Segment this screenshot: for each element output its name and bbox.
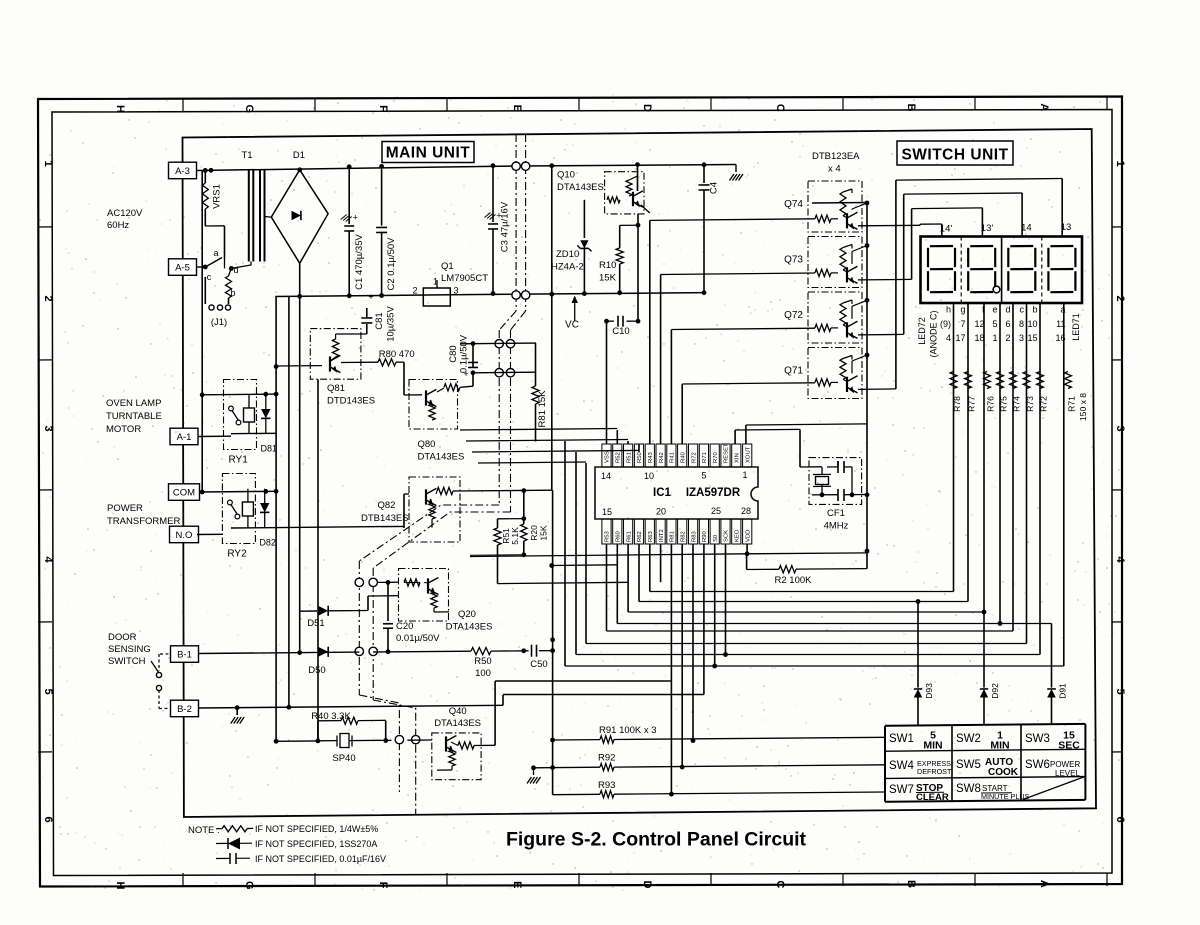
svg-text:SW7: SW7 (889, 784, 914, 796)
svg-text:NOTE :: NOTE : (188, 825, 220, 836)
svg-text:3: 3 (1114, 425, 1126, 431)
svg-text:R90: R90 (702, 530, 708, 542)
svg-text:H: H (114, 882, 126, 890)
svg-text:SW2: SW2 (956, 733, 981, 745)
svg-text:R52: R52 (616, 452, 622, 463)
svg-text:AC120V: AC120V (107, 208, 143, 219)
svg-text:SCK: SCK (724, 530, 730, 542)
svg-text:7: 7 (960, 319, 965, 329)
svg-text:R92: R92 (598, 753, 615, 764)
svg-text:Q73: Q73 (784, 255, 803, 266)
svg-text:17: 17 (955, 333, 965, 343)
svg-text:R71: R71 (702, 452, 708, 463)
svg-text:C81: C81 (374, 312, 385, 329)
svg-text:1: 1 (992, 333, 997, 343)
svg-text:INT2: INT2 (659, 529, 665, 542)
svg-text:R91 100K x 3: R91 100K x 3 (599, 725, 657, 736)
svg-text:MOTOR: MOTOR (106, 424, 141, 435)
svg-text:Q74: Q74 (784, 199, 803, 210)
svg-text:F: F (377, 105, 389, 112)
svg-text:Figure S-2. Control Panel Circ: Figure S-2. Control Panel Circuit (506, 829, 807, 851)
svg-text:IC1: IC1 (653, 487, 672, 499)
svg-text:SW3: SW3 (1025, 733, 1050, 745)
svg-text:5: 5 (1114, 688, 1126, 694)
svg-text:R40: R40 (680, 451, 686, 463)
svg-text:C10: C10 (612, 326, 629, 337)
svg-text:IF NOT SPECIFIED, 1SS270A: IF NOT SPECIFIED, 1SS270A (255, 839, 377, 849)
svg-text:LED71: LED71 (1071, 313, 1081, 341)
svg-text:B: B (905, 104, 917, 112)
svg-text:B-1: B-1 (177, 650, 192, 661)
svg-text:VC: VC (565, 320, 579, 331)
svg-text:100: 100 (475, 668, 491, 679)
svg-text:ZD10: ZD10 (556, 249, 579, 260)
svg-text:6: 6 (1114, 816, 1126, 822)
svg-text:14: 14 (601, 471, 611, 481)
svg-text:R50: R50 (474, 656, 491, 667)
svg-text:13: 13 (1061, 222, 1072, 233)
svg-text:2: 2 (412, 286, 417, 296)
svg-text:R81 15K: R81 15K (537, 390, 548, 428)
svg-text:4MHz: 4MHz (824, 521, 849, 532)
svg-text:14: 14 (1021, 223, 1032, 234)
svg-text:R60: R60 (616, 530, 622, 542)
svg-text:Q82: Q82 (378, 500, 396, 511)
svg-text:C4: C4 (709, 182, 720, 194)
svg-text:0.1µ/50V: 0.1µ/50V (459, 334, 470, 373)
svg-text:R77: R77 (967, 396, 977, 412)
svg-text:Q72: Q72 (784, 310, 803, 321)
svg-text:IF NOT SPECIFIED, 0.01µF/16V: IF NOT SPECIFIED, 0.01µF/16V (255, 854, 386, 864)
svg-text:Q40: Q40 (449, 706, 467, 717)
svg-text:20: 20 (656, 507, 666, 517)
svg-text:XIN: XIN (735, 453, 741, 463)
svg-text:LM7905CT: LM7905CT (441, 273, 488, 284)
svg-text:LED72: LED72 (917, 317, 927, 345)
svg-text:TURNTABLE: TURNTABLE (106, 411, 162, 422)
svg-text:B-2: B-2 (177, 704, 192, 715)
svg-text:b: b (1032, 305, 1037, 315)
svg-text:D92: D92 (990, 683, 1000, 699)
svg-text:CF1: CF1 (827, 508, 845, 519)
svg-text:5: 5 (42, 688, 54, 694)
svg-text:4: 4 (42, 556, 54, 563)
svg-text:4: 4 (946, 333, 951, 343)
svg-text:POWER: POWER (1050, 760, 1080, 769)
svg-text:VRS1: VRS1 (212, 184, 223, 209)
svg-text:Q20: Q20 (458, 609, 476, 620)
svg-text:DTA143ES: DTA143ES (418, 452, 465, 463)
svg-text:T1: T1 (241, 150, 252, 161)
svg-text:R83: R83 (691, 530, 697, 542)
svg-text:R51: R51 (626, 452, 632, 463)
svg-text:R63: R63 (648, 530, 654, 542)
svg-text:8: 8 (1019, 319, 1024, 329)
svg-text:DTA143ES: DTA143ES (446, 622, 493, 633)
svg-text:a: a (1060, 305, 1065, 315)
svg-text:DEFROST: DEFROST (917, 767, 952, 776)
svg-text:2: 2 (42, 295, 54, 301)
svg-text:Q81: Q81 (327, 383, 345, 394)
svg-text:Q1: Q1 (441, 261, 454, 272)
svg-text:IF NOT SPECIFIED, 1/4W±5%: IF NOT SPECIFIED, 1/4W±5% (255, 824, 378, 834)
svg-text:R93: R93 (598, 780, 615, 791)
svg-text:Q71: Q71 (784, 366, 803, 377)
svg-text:16: 16 (1055, 333, 1065, 343)
svg-text:RESET: RESET (724, 443, 730, 463)
svg-text:2: 2 (1114, 295, 1126, 301)
svg-text:POWER: POWER (107, 503, 143, 514)
svg-text:N.O: N.O (176, 530, 193, 541)
svg-text:R41: R41 (670, 452, 676, 463)
svg-text:D50: D50 (308, 665, 325, 676)
svg-text:R2 100K: R2 100K (775, 575, 813, 586)
svg-text:150 x 8: 150 x 8 (1078, 393, 1088, 421)
svg-text:3: 3 (454, 286, 459, 296)
svg-text:C3 47µ/16V: C3 47µ/16V (500, 201, 511, 252)
svg-text:A-1: A-1 (177, 432, 192, 443)
svg-text:C: C (774, 104, 786, 112)
svg-text:g: g (960, 305, 965, 315)
svg-text:c: c (207, 272, 212, 282)
svg-text:R73: R73 (1025, 396, 1035, 412)
svg-text:15K: 15K (599, 273, 617, 284)
svg-text:Q80: Q80 (418, 439, 436, 450)
svg-text:R43: R43 (648, 451, 654, 463)
svg-text:D81: D81 (261, 444, 278, 454)
svg-text:R81: R81 (670, 531, 676, 542)
svg-text:R50: R50 (637, 451, 643, 463)
svg-text:5: 5 (992, 319, 997, 329)
svg-text:D51: D51 (307, 618, 324, 629)
svg-text:D82: D82 (259, 538, 276, 548)
svg-text:12: 12 (974, 319, 984, 329)
svg-text:VDD: VDD (745, 530, 751, 542)
svg-text:25: 25 (711, 506, 721, 516)
svg-text:18: 18 (974, 333, 984, 343)
svg-text:MAIN UNIT: MAIN UNIT (386, 145, 471, 162)
svg-text:60Hz: 60Hz (107, 220, 129, 231)
svg-text:HZ4A-2: HZ4A-2 (551, 262, 584, 273)
svg-text:G: G (243, 881, 255, 890)
svg-text:E: E (511, 105, 523, 112)
svg-text:DOOR: DOOR (108, 632, 137, 643)
svg-text:R75: R75 (999, 396, 1009, 412)
svg-text:C2 0.1µ/50V: C2 0.1µ/50V (386, 237, 397, 291)
svg-text:F: F (377, 882, 389, 889)
svg-text:R82: R82 (680, 531, 686, 542)
svg-text:SEC: SEC (1058, 740, 1080, 752)
svg-text:SENSING: SENSING (108, 644, 151, 655)
svg-text:1: 1 (1114, 160, 1126, 166)
svg-text:H: H (114, 105, 126, 113)
svg-text:SW5: SW5 (956, 759, 981, 771)
svg-text:R53: R53 (605, 530, 611, 542)
svg-text:CLEAR: CLEAR (916, 792, 949, 803)
svg-text:MIN: MIN (990, 740, 1009, 752)
svg-text:G: G (243, 105, 255, 114)
svg-text:d: d (1005, 305, 1010, 315)
svg-text:a: a (213, 248, 218, 258)
svg-text:R61: R61 (626, 531, 632, 542)
svg-text:0.01µ/50V: 0.01µ/50V (396, 633, 440, 644)
svg-text:3: 3 (42, 425, 54, 431)
svg-text:KEO: KEO (735, 529, 741, 542)
svg-text:COOK: COOK (988, 767, 1019, 778)
svg-text:D: D (641, 104, 653, 112)
svg-text:C: C (774, 880, 786, 888)
svg-text:3: 3 (1019, 333, 1024, 343)
svg-text:E: E (511, 881, 523, 888)
svg-text:MIN: MIN (923, 740, 942, 752)
svg-text:13': 13' (981, 223, 994, 234)
svg-text:R72: R72 (1039, 396, 1049, 412)
svg-text:5.1K: 5.1K (510, 527, 520, 545)
svg-text:SWITCH: SWITCH (108, 656, 146, 667)
svg-text:14': 14' (940, 224, 953, 235)
svg-text:SW4: SW4 (889, 760, 915, 772)
svg-text:R10: R10 (599, 260, 616, 271)
svg-text:+: + (368, 292, 373, 302)
svg-text:x 4: x 4 (828, 164, 841, 175)
svg-text:C20: C20 (396, 621, 413, 632)
svg-text:SW8: SW8 (956, 783, 981, 795)
svg-text:2: 2 (1005, 333, 1010, 343)
svg-text:R42: R42 (659, 452, 665, 463)
svg-text:R72: R72 (691, 452, 697, 463)
svg-text:15: 15 (1027, 333, 1037, 343)
svg-text:VSS: VSS (605, 451, 611, 463)
svg-text:28: 28 (741, 506, 751, 516)
svg-text:RY2: RY2 (227, 549, 247, 560)
svg-text:DTD143ES: DTD143ES (327, 396, 375, 407)
svg-text:A-5: A-5 (175, 263, 190, 274)
svg-text:d: d (233, 265, 238, 275)
svg-text:Q10: Q10 (557, 170, 575, 181)
svg-text:DTA143ES: DTA143ES (557, 182, 604, 193)
svg-text:B: B (905, 880, 917, 888)
svg-text:DTB143ES: DTB143ES (361, 513, 409, 524)
svg-text:h: h (946, 305, 951, 315)
svg-text:C80: C80 (448, 345, 459, 362)
svg-text:10: 10 (644, 471, 654, 481)
svg-text:R76: R76 (986, 396, 996, 412)
svg-text:A: A (1038, 103, 1050, 111)
svg-text:TRANSFORMER: TRANSFORMER (107, 516, 181, 527)
svg-text:R70: R70 (713, 451, 719, 463)
svg-text:A-3: A-3 (175, 166, 190, 177)
svg-text:R62: R62 (637, 531, 643, 542)
svg-text:D1: D1 (293, 150, 305, 161)
svg-text:5: 5 (701, 471, 706, 481)
svg-text:SW6: SW6 (1025, 759, 1050, 771)
svg-text:D: D (641, 881, 653, 889)
svg-text:c: c (1020, 305, 1025, 315)
svg-text:SP40: SP40 (332, 753, 355, 764)
svg-text:10: 10 (1027, 319, 1037, 329)
svg-text:D93: D93 (924, 683, 934, 699)
svg-text:1: 1 (742, 470, 747, 480)
svg-text:D91: D91 (1058, 683, 1068, 699)
svg-text:COM: COM (173, 488, 195, 499)
svg-text:XOUT: XOUT (745, 446, 751, 463)
svg-text:e: e (992, 305, 997, 315)
svg-text:4: 4 (1114, 556, 1126, 563)
svg-text:11: 11 (1056, 319, 1065, 329)
svg-text:LEVEL: LEVEL (1055, 769, 1080, 778)
svg-text:R80 470: R80 470 (379, 349, 415, 360)
svg-text:S0: S0 (713, 534, 719, 542)
svg-text:(J1): (J1) (211, 317, 227, 328)
svg-text:+: + (353, 213, 358, 223)
svg-text:SWITCH UNIT: SWITCH UNIT (901, 147, 1008, 164)
svg-text:R74: R74 (1012, 396, 1022, 412)
svg-text:A: A (1038, 880, 1050, 888)
svg-text:C50: C50 (530, 659, 547, 670)
svg-text:10µ/35V: 10µ/35V (386, 306, 397, 342)
svg-text:1: 1 (42, 160, 54, 166)
svg-text:6: 6 (42, 816, 54, 822)
svg-text:15: 15 (602, 507, 612, 517)
svg-text:R20: R20 (529, 525, 539, 541)
svg-text:(9): (9) (940, 319, 951, 329)
svg-text:RY1: RY1 (229, 455, 249, 466)
svg-text:C1 470µ/35V: C1 470µ/35V (354, 234, 365, 290)
svg-text:DTA143ES: DTA143ES (434, 718, 481, 729)
svg-text:15K: 15K (539, 525, 549, 540)
svg-text:DTB123EA: DTB123EA (812, 151, 860, 162)
svg-text:R78: R78 (952, 396, 962, 412)
svg-text:IZA597DR: IZA597DR (686, 487, 741, 499)
svg-text:MINUTE PLUS: MINUTE PLUS (981, 792, 1030, 801)
svg-text:OVEN LAMP: OVEN LAMP (106, 398, 161, 409)
svg-text:(ANODE C): (ANODE C) (929, 310, 939, 357)
svg-text:R71: R71 (1067, 396, 1077, 412)
svg-text:6: 6 (1005, 319, 1010, 329)
svg-text:SW1: SW1 (889, 733, 914, 745)
